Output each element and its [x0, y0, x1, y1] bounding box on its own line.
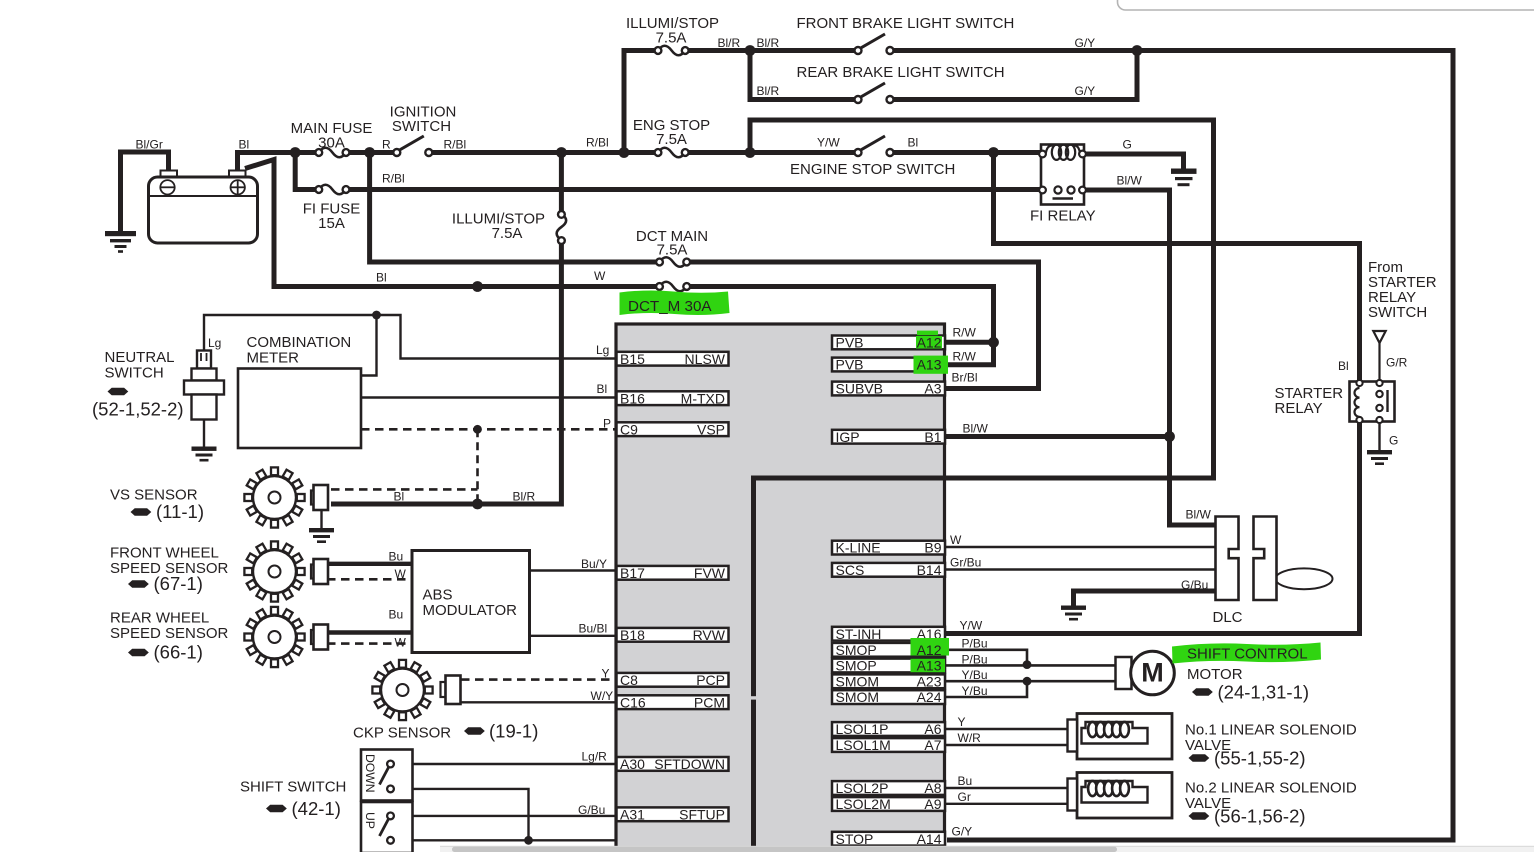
wire Y/Bu SMOM A23 to motor [945, 680, 1117, 683]
pin LSOL1M A7 [832, 738, 945, 752]
svg-text:FVW: FVW [694, 565, 726, 581]
svg-text:IGP: IGP [836, 429, 860, 445]
wire Bl battery positive to main fuse [238, 153, 316, 173]
wire shift switch UP low contact common to ECU [394, 839, 617, 841]
wire W/Y CKP sensor to C16 PCM [461, 701, 617, 703]
svg-text:G: G [1123, 138, 1132, 152]
svg-text:PCP: PCP [696, 672, 725, 688]
svg-text:R: R [382, 138, 391, 152]
svg-text:Bu: Bu [958, 774, 973, 788]
svg-text:G/R: G/R [1386, 356, 1408, 370]
svg-text:SHIFT CONTROL: SHIFT CONTROL [1187, 646, 1308, 663]
svg-text:(19-1): (19-1) [489, 721, 538, 742]
battery [149, 171, 258, 244]
pin A31 SFTUP [617, 807, 729, 821]
svg-text:A23: A23 [917, 673, 942, 689]
pin B17 FVW [617, 566, 729, 580]
svg-text:W/R: W/R [958, 731, 982, 745]
wire G/Y front brake switch to right bus and down to STOP A14 [893, 51, 1453, 841]
wire dashed VS sensor to P line [331, 488, 478, 491]
wire battery positive to Bl feed / DCT_M fuse [245, 160, 656, 287]
svg-text:Lg/R: Lg/R [582, 750, 608, 764]
wire Y/Bu SMOM A24 to motor [945, 681, 1028, 697]
fuse ILLUMI/STOP 7.5A (top) [658, 46, 685, 56]
DLC connector left half [1216, 517, 1239, 601]
svg-text:30A: 30A [318, 135, 345, 152]
pin B18 RVW [617, 628, 729, 642]
svg-text:7.5A: 7.5A [656, 30, 687, 47]
fuse ENG STOP 7.5A [658, 148, 685, 158]
wire W after DCT MAIN fuse to SUBVB A3 [689, 262, 1039, 389]
svg-text:SWITCH: SWITCH [392, 118, 451, 135]
wire G FI relay coil to ground [1085, 154, 1184, 169]
svg-text:DOWN: DOWN [363, 754, 377, 793]
shift switch DOWN section box [361, 750, 413, 801]
svg-text:Y: Y [958, 715, 966, 729]
rear wheel speed sensor gear [244, 607, 304, 667]
svg-text:W: W [950, 533, 962, 547]
pin IGP B1 [832, 430, 945, 444]
VS sensor gear [244, 467, 304, 527]
svg-text:Y/W: Y/W [960, 619, 983, 633]
svg-text:VSP: VSP [697, 421, 725, 437]
svg-text:Bl/W: Bl/W [963, 422, 989, 436]
svg-text:Y/Bu: Y/Bu [962, 668, 988, 682]
svg-text:Y/Bu: Y/Bu [962, 684, 988, 698]
svg-text:Bu/Y: Bu/Y [581, 557, 607, 571]
pin SMOM A23 [832, 674, 945, 688]
pin A30 SFTDOWN [617, 757, 729, 771]
svg-text:B16: B16 [620, 390, 645, 406]
svg-text:DLC: DLC [1213, 609, 1243, 626]
svg-text:B17: B17 [620, 565, 645, 581]
fuse MAIN FUSE 30A [319, 148, 346, 158]
ground neutral switch [192, 447, 217, 462]
junction dots (thick wires) [290, 147, 301, 158]
svg-text:R/Bl: R/Bl [444, 138, 467, 152]
pin PVB A12 (highlighted) [832, 336, 945, 350]
svg-text:SMOP: SMOP [836, 658, 877, 674]
wire Bl engine stop switch to FI relay coil [893, 150, 1041, 155]
DLC connector right half [1254, 517, 1277, 601]
svg-text:VALVE: VALVE [1185, 737, 1231, 754]
svg-text:PCM: PCM [694, 694, 725, 710]
svg-text:Bu/Bl: Bu/Bl [579, 622, 608, 636]
shift control motor M circle [1131, 651, 1175, 695]
pin ST-INH A16 [832, 627, 945, 641]
lens + ref (55-1,55-2) solenoid 1 [1189, 754, 1210, 761]
svg-text:R/Bl: R/Bl [586, 136, 609, 150]
svg-text:Bl/R: Bl/R [718, 36, 741, 50]
svg-text:UP: UP [363, 812, 377, 829]
svg-text:A13: A13 [917, 658, 942, 674]
pin SMOP A12 (highlighted) [832, 643, 945, 657]
shift switch UP section box [361, 802, 413, 852]
wire Bu/Bl ABS modulator to B18 [530, 635, 618, 637]
wire Bu rear wheel sensor [327, 630, 412, 634]
wire Bu/Y ABS modulator to B17 [530, 569, 618, 571]
pin LSOL1P A6 [832, 722, 945, 736]
ground battery negative [105, 231, 136, 253]
pin SCS B14 [832, 563, 945, 577]
wire Bl VS sensor to ILLUMI/STOP vertical fuse [331, 244, 561, 504]
wire P/Bu SMOP A12 to motor [945, 650, 1028, 665]
front wheel speed sensor connector [311, 559, 328, 584]
svg-text:SFTDOWN: SFTDOWN [654, 756, 725, 772]
svg-text:SPEED SENSOR: SPEED SENSOR [110, 625, 229, 642]
svg-text:NEUTRAL: NEUTRAL [105, 349, 175, 366]
svg-text:COMBINATION: COMBINATION [247, 334, 352, 351]
svg-text:P/Bu: P/Bu [962, 637, 988, 651]
wire Bl engine stop to starter relay coil [994, 153, 1360, 382]
svg-text:G/Bu: G/Bu [1181, 578, 1208, 592]
svg-text:(66-1): (66-1) [154, 642, 203, 663]
svg-text:SMOP: SMOP [836, 642, 877, 658]
svg-text:7.5A: 7.5A [657, 242, 688, 259]
switch UP contacts [380, 818, 390, 836]
highlight SHIFT CONTROL [1172, 643, 1321, 664]
pin B16 M-TXD [617, 391, 729, 405]
pin SUBVB A3 [832, 382, 945, 396]
wire G/R starter relay switch lead [1378, 343, 1380, 381]
fuse FI FUSE 15A [319, 185, 346, 195]
svg-text:Y: Y [602, 667, 610, 681]
No.1 linear solenoid valve [1077, 714, 1172, 760]
svg-text:G/Y: G/Y [1075, 84, 1096, 98]
lens + ref (67-1) front wheel speed sensor [128, 580, 149, 587]
ground starter relay [1367, 450, 1392, 465]
wire ignition feed riser to DLC branch over ECU [750, 120, 1214, 852]
CKP sensor gear [372, 660, 432, 720]
pin STOP A14 [832, 832, 945, 846]
wire Lg neutral switch to combination meter and B15 [204, 315, 617, 359]
svg-text:METER: METER [247, 350, 300, 367]
svg-text:REAR BRAKE LIGHT SWITCH: REAR BRAKE LIGHT SWITCH [797, 64, 1005, 81]
svg-text:A13: A13 [917, 357, 942, 373]
svg-text:A8: A8 [924, 780, 941, 796]
svg-text:15A: 15A [318, 215, 345, 232]
svg-text:RVW: RVW [693, 627, 726, 643]
svg-text:PVB: PVB [836, 335, 864, 351]
wire Y CKP sensor to C8 PCP (dashed) [461, 678, 616, 681]
pin C9 VSP [617, 422, 729, 436]
front wheel speed sensor gear [244, 541, 304, 601]
switch REAR BRAKE LIGHT SWITCH [860, 83, 885, 97]
svg-text:A12: A12 [917, 642, 942, 658]
ECU / PCM main unit box [616, 324, 945, 852]
wire Gr/Bu SCS B14 to DLC [945, 568, 1217, 570]
svg-text:Gr: Gr [958, 790, 971, 804]
wire R/Bl after FI fuse to FI relay switch [349, 187, 1041, 192]
svg-text:A6: A6 [924, 721, 941, 737]
svg-text:SMOM: SMOM [836, 673, 880, 689]
svg-text:W/Y: W/Y [591, 689, 614, 703]
wire W/R LSOL1M A7 to solenoid 1 [945, 744, 1069, 746]
svg-text:A7: A7 [924, 737, 941, 753]
svg-text:REAR WHEEL: REAR WHEEL [110, 610, 209, 627]
starter relay [1350, 380, 1395, 423]
svg-text:VS SENSOR: VS SENSOR [110, 487, 198, 504]
svg-text:7.5A: 7.5A [492, 225, 523, 242]
wire dashed riser P line to Bl wire [476, 429, 479, 504]
wire R main fuse to ignition switch [349, 150, 394, 155]
pin SMOP A13 (highlighted) [832, 659, 945, 673]
wire Y LSOL1P A6 to solenoid 1 [945, 728, 1069, 730]
svg-text:G/Y: G/Y [952, 825, 973, 839]
svg-text:A24: A24 [917, 689, 942, 705]
pin C16 PCM [617, 695, 729, 709]
svg-text:SMOM: SMOM [836, 689, 880, 705]
svg-text:MOTOR: MOTOR [1187, 666, 1243, 683]
svg-text:A14: A14 [917, 831, 942, 847]
wire Bu front wheel sensor [327, 562, 412, 566]
switch IGNITION SWITCH [399, 136, 424, 150]
wire Bl/W IGP B1 to Bl/W bus [945, 434, 1170, 439]
svg-text:G/Bu: G/Bu [578, 803, 605, 817]
svg-text:Gr/Bu: Gr/Bu [950, 556, 981, 570]
svg-text:MODULATOR: MODULATOR [423, 602, 518, 619]
pin C8 PCP [617, 673, 729, 687]
fuse ILLUMI/STOP 7.5A (vertical) [557, 214, 567, 240]
wire dashed W rear wheel sensor [327, 642, 412, 645]
neutral switch symbol [184, 351, 224, 448]
svg-text:DCT_M 30A: DCT_M 30A [628, 298, 712, 315]
lens + ref (42-1) shift switch [266, 805, 287, 812]
wire Bl/R branch to rear brake switch [750, 51, 855, 100]
wire shift switch DOWN low contact to common [394, 789, 529, 840]
svg-text:A3: A3 [924, 381, 941, 397]
lens + ref (19-1) CKP sensor [464, 727, 485, 734]
svg-text:W: W [594, 269, 606, 283]
svg-text:NLSW: NLSW [685, 351, 726, 367]
switch DOWN contacts [380, 767, 390, 785]
fuse DCT MAIN 7.5A [660, 257, 687, 267]
svg-text:PVB: PVB [836, 357, 864, 373]
DLC wire loop ellipse [1276, 568, 1333, 589]
svg-text:VALVE: VALVE [1185, 795, 1231, 812]
switch ENGINE STOP SWITCH [860, 136, 885, 150]
svg-text:M: M [1141, 658, 1164, 688]
svg-text:SWITCH: SWITCH [1368, 304, 1427, 321]
svg-text:Lg: Lg [208, 336, 221, 350]
wire R/Bl riser to DCT MAIN fuse line [370, 153, 656, 263]
wire Gr LSOL2M A9 to solenoid 2 [945, 803, 1069, 805]
svg-text:Br/Bl: Br/Bl [952, 371, 978, 385]
pin B15 NLSW [617, 352, 729, 366]
svg-text:R/W: R/W [953, 326, 977, 340]
wire R/Bl ignition switch to ENG STOP fuse [433, 150, 655, 155]
wire R/W branch to PVB A12 [945, 340, 994, 345]
lens + ref (56-1,56-2) solenoid 2 [1189, 812, 1210, 819]
svg-text:ENGINE STOP SWITCH: ENGINE STOP SWITCH [790, 161, 955, 178]
svg-text:Lg: Lg [596, 343, 609, 357]
svg-text:LSOL1P: LSOL1P [836, 721, 889, 737]
pin LSOL2M A9 [832, 797, 945, 811]
combination meter box [238, 369, 361, 449]
antenna triangle from starter relay switch [1373, 331, 1385, 343]
svg-text:SWITCH: SWITCH [105, 365, 164, 382]
CKP sensor connector [441, 676, 461, 705]
svg-text:SPEED SENSOR: SPEED SENSOR [110, 560, 229, 577]
ground FI relay [1171, 169, 1197, 187]
svg-text:Bl: Bl [597, 382, 608, 396]
svg-text:(24-1,31-1): (24-1,31-1) [1218, 682, 1310, 703]
svg-text:Bl/W: Bl/W [1186, 508, 1212, 522]
svg-text:LSOL2P: LSOL2P [836, 780, 889, 796]
svg-text:W: W [395, 567, 407, 581]
junction dots (thin wires) [372, 311, 381, 320]
ground VS sensor [320, 510, 322, 529]
svg-text:No.1 LINEAR SOLENOID: No.1 LINEAR SOLENOID [1185, 722, 1357, 739]
wire Bl/Gr battery negative to ground [121, 152, 169, 234]
lens + ref (11-1) VS sensor [131, 508, 152, 515]
wire R/Bl FI fuse branch [295, 153, 315, 190]
svg-text:(42-1): (42-1) [292, 798, 341, 819]
svg-text:A12: A12 [917, 335, 942, 351]
svg-text:R/W: R/W [953, 350, 977, 364]
wire Bu LSOL2P A8 to solenoid 2 [945, 787, 1069, 789]
pin K-LINE B9 [832, 541, 945, 555]
svg-text:No.2 LINEAR SOLENOID: No.2 LINEAR SOLENOID [1185, 780, 1357, 797]
svg-text:Bu: Bu [389, 550, 404, 564]
svg-text:FRONT BRAKE LIGHT SWITCH: FRONT BRAKE LIGHT SWITCH [797, 15, 1015, 32]
pin LSOL2P A8 [832, 781, 945, 795]
svg-text:LSOL2M: LSOL2M [836, 796, 891, 812]
pin PVB A13 (highlighted) [832, 358, 945, 372]
svg-text:Bl/W: Bl/W [1117, 174, 1143, 188]
svg-text:C16: C16 [620, 694, 646, 710]
svg-text:P: P [603, 417, 611, 431]
scrollbar thumb bottom [452, 847, 1117, 852]
wire G/Bu shift switch UP to A31 [394, 815, 618, 817]
svg-text:G/Y: G/Y [1075, 36, 1096, 50]
rear wheel speed sensor connector [311, 625, 328, 650]
svg-text:FI RELAY: FI RELAY [1030, 208, 1096, 225]
highlight DCT_M 30A [620, 290, 730, 315]
pin SMOM A24 [832, 690, 945, 704]
ground DLC [1061, 606, 1086, 621]
svg-text:Bl: Bl [376, 271, 387, 285]
seam gap artifact in vertical wire [750, 696, 757, 699]
wire W K-LINE B9 to DLC [945, 546, 1217, 548]
svg-text:7.5A: 7.5A [656, 131, 687, 148]
svg-text:K-LINE: K-LINE [836, 540, 881, 556]
wire R/Bl after ENG STOP fuse to engine stop switch [688, 150, 855, 155]
svg-text:Bl/Gr: Bl/Gr [136, 138, 163, 152]
svg-text:Bl/R: Bl/R [757, 36, 780, 50]
svg-text:STOP: STOP [836, 831, 874, 847]
wire starter relay to ground [1378, 422, 1380, 451]
svg-text:P/Bu: P/Bu [962, 652, 988, 666]
svg-text:SFTUP: SFTUP [679, 806, 725, 822]
svg-text:Bl/R: Bl/R [757, 84, 780, 98]
svg-text:SHIFT SWITCH: SHIFT SWITCH [240, 779, 346, 796]
svg-text:ABS: ABS [423, 587, 453, 604]
svg-text:B18: B18 [620, 627, 645, 643]
svg-text:A31: A31 [620, 806, 645, 822]
lens + ref (52-1,52-2) neutral switch [108, 388, 129, 395]
svg-text:RELAY: RELAY [1275, 400, 1323, 417]
svg-text:SCS: SCS [836, 562, 865, 578]
fuse DCT_M 30A [660, 282, 687, 292]
wire P combination meter to C9 VSP (dashed) [361, 428, 616, 431]
FI relay [1039, 145, 1086, 205]
svg-text:B14: B14 [917, 562, 942, 578]
svg-text:(11-1): (11-1) [156, 501, 204, 522]
VS sensor connector [311, 485, 328, 510]
svg-text:M-TXD: M-TXD [681, 390, 725, 406]
browser popup edge top right [1118, 0, 1534, 10]
svg-text:G: G [1389, 434, 1398, 448]
No.2 linear solenoid valve [1077, 773, 1172, 819]
wire P/Bu SMOP A13 to motor [945, 664, 1117, 667]
svg-text:ST-INH: ST-INH [836, 626, 882, 642]
svg-text:Bu: Bu [389, 608, 404, 622]
svg-text:C8: C8 [620, 672, 638, 688]
lens + ref (24-1,31-1) shift control motor [1192, 688, 1213, 695]
wire G/Bu DLC to ground [1074, 591, 1217, 606]
wire R/W after DCT_M fuse to PVB pins [689, 287, 994, 365]
svg-text:B15: B15 [620, 351, 645, 367]
svg-text:C9: C9 [620, 421, 638, 437]
svg-text:R/Bl: R/Bl [382, 172, 405, 186]
lens + ref (66-1) rear wheel speed sensor [128, 649, 149, 656]
shift control motor connector box [1116, 657, 1132, 689]
svg-text:B9: B9 [924, 540, 941, 556]
svg-text:Bl/R: Bl/R [513, 490, 536, 504]
wire Bl combination meter to B16 [361, 396, 617, 398]
scrollbar track bottom [440, 846, 1534, 852]
svg-text:LSOL1M: LSOL1M [836, 737, 891, 753]
svg-text:A30: A30 [620, 756, 645, 772]
ABS modulator box [412, 551, 530, 653]
wire dashed W front wheel sensor [327, 578, 412, 581]
wire Bl/R riser to ILLUMI/STOP fuse [624, 51, 655, 153]
svg-text:CKP SENSOR: CKP SENSOR [353, 725, 451, 742]
svg-text:(52-1,52-2): (52-1,52-2) [92, 399, 184, 420]
svg-text:Bl: Bl [394, 490, 405, 504]
svg-text:Bl: Bl [239, 138, 250, 152]
switch FRONT BRAKE LIGHT SWITCH [860, 34, 885, 48]
svg-text:Bl: Bl [1338, 359, 1349, 373]
svg-text:Y/W: Y/W [817, 136, 840, 150]
svg-text:FRONT WHEEL: FRONT WHEEL [110, 545, 219, 562]
svg-text:Bl: Bl [908, 136, 919, 150]
wire Bl/W FI relay switch to DLC [1085, 190, 1217, 525]
svg-text:SUBVB: SUBVB [836, 381, 883, 397]
wire G/Y rear brake switch up to G/Y bus [893, 51, 1137, 100]
svg-text:W: W [395, 636, 407, 650]
svg-text:A9: A9 [924, 796, 941, 812]
wire Bl/R after ILLUMI/STOP fuse to front brake switch [688, 48, 855, 53]
wire Y/W ST-INH A16 to starter relay [945, 422, 1360, 634]
wire Lg/R shift switch DOWN to A30 [394, 763, 618, 765]
svg-text:B1: B1 [924, 429, 941, 445]
